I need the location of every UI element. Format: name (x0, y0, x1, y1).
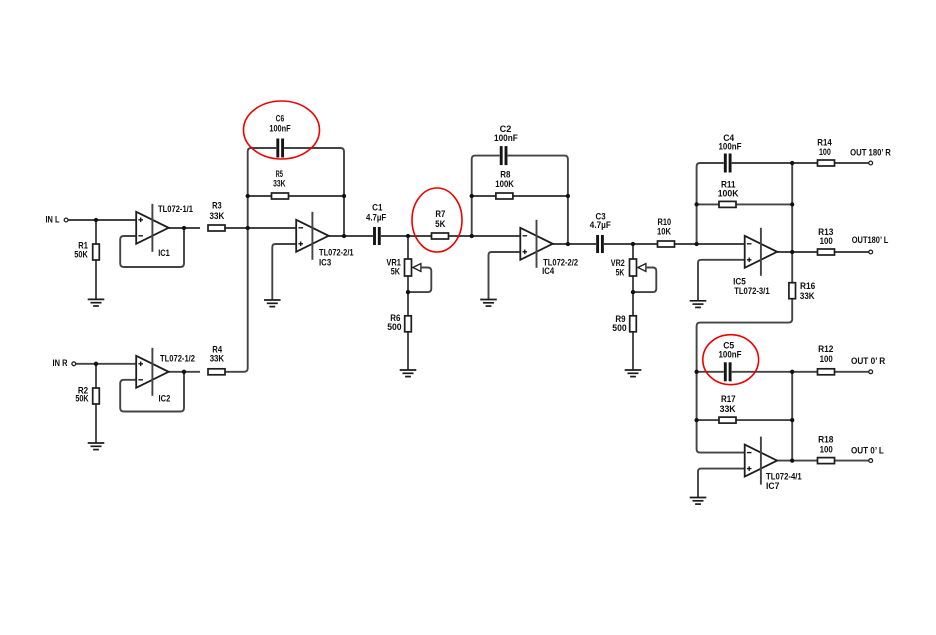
svg-text:100nF: 100nF (719, 141, 742, 151)
svg-text:TL072-2/1: TL072-2/1 (319, 248, 354, 258)
svg-text:OUT 180’ R: OUT 180’ R (850, 147, 891, 157)
svg-text:100: 100 (819, 147, 831, 157)
svg-text:R18: R18 (818, 434, 833, 444)
svg-text:50K: 50K (74, 250, 88, 260)
svg-text:IC2: IC2 (159, 393, 171, 403)
svg-text:4.7µF: 4.7µF (366, 213, 387, 223)
svg-text:33K: 33K (210, 211, 225, 221)
svg-text:C1: C1 (372, 203, 382, 213)
svg-text:4.7µF: 4.7µF (590, 220, 611, 230)
svg-text:IC4: IC4 (542, 266, 554, 276)
svg-text:100K: 100K (718, 189, 739, 199)
svg-text:33K: 33K (210, 353, 225, 363)
svg-text:100: 100 (820, 354, 833, 364)
svg-text:10K: 10K (657, 226, 671, 236)
svg-text:5K: 5K (391, 266, 401, 276)
svg-text:R12: R12 (818, 344, 833, 354)
svg-text:100: 100 (820, 236, 833, 246)
svg-text:33K: 33K (800, 291, 815, 301)
svg-text:TL072-1/1: TL072-1/1 (158, 204, 193, 214)
svg-text:R8: R8 (500, 169, 510, 179)
svg-text:100nF: 100nF (494, 133, 518, 143)
svg-text:OUT 0’ R: OUT 0’ R (851, 356, 886, 366)
svg-text:OUT180’ L: OUT180’ L (852, 235, 889, 245)
svg-text:IC1: IC1 (158, 248, 170, 258)
svg-text:100nF: 100nF (269, 124, 291, 134)
svg-text:R14: R14 (817, 137, 832, 147)
svg-text:IC7: IC7 (766, 481, 779, 491)
svg-text:IN L: IN L (46, 215, 60, 225)
svg-text:100K: 100K (495, 179, 514, 189)
svg-text:IN R: IN R (53, 358, 68, 368)
svg-text:TL072-1/2: TL072-1/2 (160, 353, 195, 363)
svg-text:5K: 5K (616, 268, 625, 278)
svg-text:R7: R7 (435, 209, 445, 219)
svg-text:IC3: IC3 (319, 257, 331, 267)
svg-text:5K: 5K (435, 219, 446, 229)
svg-text:500: 500 (387, 322, 401, 332)
svg-text:VR2: VR2 (611, 258, 625, 268)
svg-text:100nF: 100nF (719, 350, 742, 360)
svg-text:R16: R16 (800, 281, 815, 291)
svg-text:R10: R10 (658, 217, 672, 227)
svg-text:33K: 33K (720, 404, 736, 414)
svg-text:OUT 0’ L: OUT 0’ L (851, 445, 884, 455)
svg-text:100: 100 (820, 445, 833, 455)
svg-text:50K: 50K (75, 393, 89, 403)
svg-text:C6: C6 (276, 114, 285, 124)
svg-text:TL072-3/1: TL072-3/1 (734, 286, 769, 296)
svg-text:R17: R17 (721, 394, 736, 404)
svg-text:33K: 33K (273, 178, 286, 188)
svg-text:R5: R5 (276, 169, 283, 179)
svg-text:R3: R3 (212, 200, 222, 210)
svg-text:IC5: IC5 (733, 276, 746, 286)
svg-text:500: 500 (612, 323, 626, 333)
